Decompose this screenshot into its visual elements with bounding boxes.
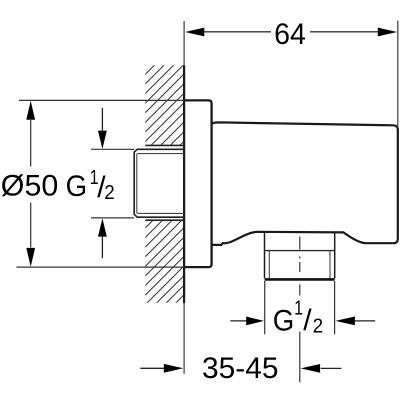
- svg-text:Ø50: Ø50: [1, 170, 59, 203]
- dim 35-45 arrow right: [321, 367, 342, 369]
- wall face line: [183, 65, 185, 303]
- Ø50 extension line top: [19, 99, 184, 101]
- left G1/2 extension top: [91, 148, 134, 150]
- inlet connector thread root top: [137, 153, 184, 155]
- svg-text:G: G: [66, 170, 88, 203]
- left G1/2 arrow down: [101, 108, 103, 131]
- svg-text:/: /: [303, 304, 312, 337]
- svg-text:2: 2: [104, 182, 115, 204]
- escutcheon plate: [184, 100, 212, 267]
- outlet nipple end face: [265, 278, 335, 281]
- Ø50 extension line bottom: [17, 266, 185, 268]
- left G1/2 arrow up: [101, 237, 103, 259]
- dim 64 arrow left: [185, 28, 204, 37]
- dim 64 line: [204, 31, 379, 33]
- svg-text:2: 2: [313, 316, 324, 338]
- bottom G1/2 extension left: [264, 281, 266, 334]
- svg-text:64: 64: [274, 18, 306, 51]
- dim 35-45 arrow left: [140, 367, 164, 369]
- outlet nipple shoulder line: [265, 250, 335, 252]
- wall hole edge lower: [145, 219, 184, 221]
- inlet connector thread root bottom: [137, 212, 184, 214]
- bottom G1/2 text: [273, 297, 323, 337]
- inlet connector inner vertical: [136, 154, 138, 214]
- inlet connector G1/2 outer: [134, 149, 184, 217]
- left G1/2 text: [66, 167, 115, 204]
- wall hole edge upper: [145, 144, 184, 146]
- left G1/2 extension bottom: [91, 217, 134, 219]
- svg-text:35-45: 35-45: [202, 352, 279, 385]
- extension line right (64): [397, 21, 399, 129]
- Ø50 arrow up: [26, 101, 35, 120]
- bottom G1/2 arrow right: [355, 320, 375, 322]
- outlet nipple thread root right: [329, 251, 331, 279]
- bottom G1/2 extension right: [334, 281, 336, 334]
- wall hatching lower: [0, 194, 400, 400]
- svg-text:1: 1: [294, 297, 303, 319]
- outlet nipple thread root left: [268, 251, 270, 279]
- dim 64 arrow right: [378, 28, 397, 37]
- centerline of outlet: [299, 237, 301, 383]
- wall extension line bottom: [183, 303, 185, 374]
- body outline: [212, 122, 398, 244]
- svg-text:G: G: [273, 305, 295, 338]
- wall extension line top: [183, 21, 185, 66]
- outlet nipple left edge: [264, 232, 266, 278]
- Ø50 arrow down: [26, 248, 35, 267]
- Ø50 dim line segments: [30, 120, 32, 248]
- wall hatching upper: [0, 40, 400, 310]
- bottom G1/2 arrow left: [230, 320, 246, 322]
- outlet nipple right edge: [334, 232, 336, 278]
